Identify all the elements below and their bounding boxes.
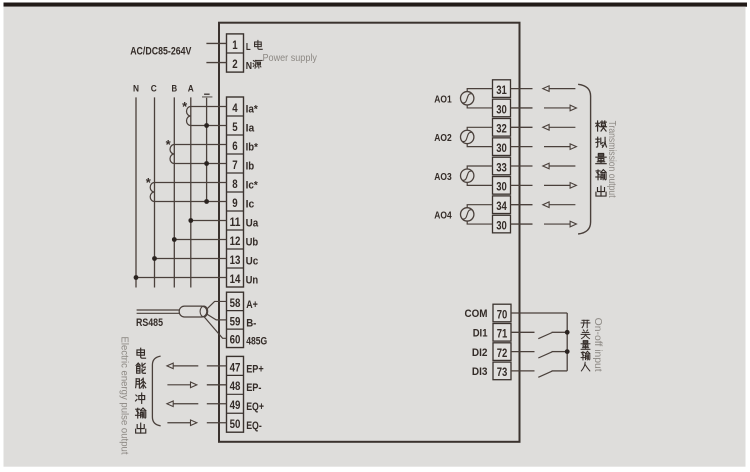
- svg-text:72: 72: [497, 348, 508, 360]
- svg-text:Un: Un: [246, 275, 259, 287]
- svg-text:EQ+: EQ+: [246, 401, 264, 413]
- switch DI3: [538, 371, 552, 377]
- svg-text:Ib: Ib: [246, 161, 255, 173]
- arrow EQ-: [167, 422, 191, 424]
- svg-text:DI2: DI2: [472, 347, 488, 359]
- svg-text:Ic*: Ic*: [246, 180, 259, 192]
- svg-text:58: 58: [230, 297, 241, 310]
- terminal 30 (AO row 2): [493, 99, 511, 117]
- svg-text:13: 13: [230, 254, 241, 267]
- wire switch DI1 to rail: [552, 331, 568, 333]
- svg-text:9: 9: [232, 197, 238, 210]
- junction node DI1 rail: [565, 330, 570, 335]
- junction node Uc: [152, 256, 157, 261]
- wire AO1+: [467, 89, 492, 92]
- wire phase B vertical: [173, 97, 175, 287]
- svg-text:60: 60: [230, 334, 241, 347]
- svg-text:32: 32: [496, 124, 507, 136]
- wire stub DI2: [511, 351, 535, 353]
- svg-text:A+: A+: [246, 299, 258, 311]
- svg-text:485G: 485G: [246, 336, 267, 348]
- terminal 30 (AO row 8): [493, 215, 511, 233]
- svg-text:Electric energy pulse output: Electric energy pulse output: [118, 337, 129, 455]
- svg-text:71: 71: [497, 329, 508, 341]
- svg-text:C: C: [151, 83, 157, 93]
- arrow EP+: [173, 365, 199, 367]
- wire phase N vertical: [135, 97, 137, 287]
- svg-text:73: 73: [497, 367, 508, 379]
- wire stub DI1: [511, 331, 535, 333]
- junction node Ib: [204, 161, 209, 166]
- device outline rectangle: [219, 23, 520, 442]
- svg-text:70: 70: [497, 309, 508, 321]
- terminal block measure 4-14: [227, 97, 244, 287]
- top black bar: [4, 3, 748, 7]
- RS485 cable sheath: [179, 306, 207, 317]
- arrow AO row 1: [549, 88, 576, 90]
- terminal 71: [493, 324, 511, 342]
- current transformer CT-A: [182, 99, 191, 125]
- wire stub out of terminal 30 row 4: [511, 146, 533, 148]
- wire stub terminal EQ-: [207, 422, 227, 424]
- svg-text:30: 30: [496, 104, 507, 116]
- wire to terminal Ic: [155, 201, 227, 203]
- wire to terminal Ia*: [191, 106, 227, 108]
- svg-text:AC/DC85-264V: AC/DC85-264V: [130, 45, 192, 57]
- terminal 31 (AO row 1): [493, 80, 511, 98]
- wire to terminal Un: [136, 277, 227, 279]
- RS485 cable pair: [137, 309, 181, 311]
- svg-text:COM: COM: [465, 308, 488, 320]
- label dian neng mai chong shu chu: [136, 348, 146, 433]
- arrow EP-: [167, 384, 191, 386]
- svg-text:Ia: Ia: [246, 123, 255, 135]
- svg-text:12: 12: [230, 235, 241, 248]
- svg-text:8: 8: [232, 178, 238, 191]
- terminal 72: [493, 343, 511, 361]
- wire to terminal Ib: [174, 163, 226, 165]
- wire AO2+: [467, 127, 492, 130]
- wire stub out of terminal 31 row 1: [511, 88, 533, 90]
- wire common rail vertical: [566, 313, 568, 371]
- svg-text:On-off input: On-off input: [592, 318, 603, 372]
- terminal 32 (AO row 3): [493, 119, 511, 137]
- arrow EQ+: [173, 403, 199, 405]
- junction node Ua: [188, 218, 193, 223]
- wire stub DI3: [511, 370, 535, 372]
- svg-text:49: 49: [230, 399, 241, 412]
- brace transmission output group: [578, 84, 591, 234]
- wire stub out of terminal 32 row 3: [511, 126, 533, 128]
- svg-text:4: 4: [232, 102, 238, 115]
- svg-text:N: N: [246, 60, 252, 72]
- wire to terminal Ub: [174, 239, 226, 241]
- terminal 34 (AO row 7): [493, 196, 511, 214]
- analog output source AO3: [461, 169, 474, 182]
- arrow AO row 8: [544, 223, 571, 225]
- wire AO3+: [467, 166, 492, 169]
- wire to terminal Ib*: [174, 144, 226, 146]
- switch DI1: [538, 333, 552, 339]
- arrow AO row 5: [549, 165, 576, 167]
- wire switch DI3 to rail: [552, 370, 568, 372]
- svg-text:14: 14: [230, 273, 241, 286]
- wire AO1-: [467, 105, 492, 108]
- terminal 33 (AO row 5): [493, 157, 511, 175]
- svg-text:Ib*: Ib*: [246, 142, 259, 154]
- terminal 30 (AO row 6): [493, 177, 511, 195]
- wire phase C vertical: [154, 97, 156, 287]
- wire switch DI2 to rail: [552, 351, 568, 353]
- svg-text:30: 30: [496, 143, 507, 155]
- wire L to terminal 1: [206, 42, 226, 44]
- junction node Un: [134, 275, 139, 280]
- svg-text:Ua: Ua: [246, 218, 259, 230]
- arrow AO row 3: [549, 126, 576, 128]
- svg-text:5: 5: [232, 121, 238, 134]
- switch DI2: [538, 352, 552, 358]
- svg-text:EP+: EP+: [246, 363, 264, 375]
- arrow AO row 4: [544, 146, 571, 148]
- svg-text:A: A: [188, 83, 194, 93]
- current transformer CT-B: [166, 137, 175, 163]
- svg-text:Power supply: Power supply: [263, 53, 318, 64]
- wire to terminal Ua: [191, 220, 227, 222]
- junction node Ia: [204, 123, 209, 128]
- wire to terminal B-: [207, 314, 226, 319]
- svg-text:50: 50: [230, 418, 241, 431]
- svg-text:RS485: RS485: [136, 317, 163, 329]
- wire AO4+: [467, 205, 492, 208]
- wire AO2-: [467, 144, 492, 147]
- svg-text:DI1: DI1: [473, 328, 488, 340]
- label kai guan liang shu ru: [581, 320, 590, 371]
- terminal 73: [493, 362, 511, 380]
- svg-text:33: 33: [496, 162, 507, 174]
- wire COM to common rail: [511, 312, 567, 314]
- svg-text:11: 11: [230, 216, 241, 229]
- svg-text:EQ-: EQ-: [246, 420, 262, 432]
- svg-text:47: 47: [230, 361, 241, 374]
- svg-text:N: N: [133, 83, 139, 93]
- arrow AO row 2: [544, 107, 571, 109]
- wire N to terminal 2: [206, 62, 226, 64]
- wire to terminal Ic*: [155, 182, 227, 184]
- wire to terminal A+: [207, 301, 226, 308]
- svg-text:AO2: AO2: [434, 133, 452, 144]
- svg-text:Ia*: Ia*: [246, 104, 259, 116]
- svg-text:EP-: EP-: [246, 382, 261, 394]
- terminal block RS485 58-60: [227, 292, 244, 347]
- svg-text:6: 6: [232, 140, 238, 153]
- junction node Ub: [172, 237, 177, 242]
- wire stub out of terminal 30 row 8: [511, 223, 533, 225]
- svg-text:34: 34: [496, 201, 507, 213]
- svg-text:Uc: Uc: [246, 256, 259, 268]
- svg-text:48: 48: [230, 380, 241, 393]
- terminal 70: [493, 304, 511, 322]
- svg-text:L: L: [246, 41, 251, 53]
- svg-text:30: 30: [496, 182, 507, 194]
- junction node Ic: [204, 199, 209, 204]
- wire stub terminal EP+: [207, 365, 227, 367]
- svg-text:DI3: DI3: [472, 366, 488, 378]
- wire stub out of terminal 33 row 5: [511, 165, 533, 167]
- svg-text:AO4: AO4: [434, 210, 452, 221]
- svg-text:Ic: Ic: [246, 199, 255, 211]
- wire stub out of terminal 34 row 7: [511, 204, 533, 206]
- wire stub terminal EQ+: [207, 403, 227, 405]
- svg-text:Ub: Ub: [246, 237, 259, 249]
- wire phase A vertical: [190, 97, 192, 287]
- wire shield to terminal 485G: [204, 317, 226, 338]
- current transformer CT-C: [146, 175, 155, 201]
- wire AO4-: [467, 221, 492, 224]
- arrow AO row 7: [549, 204, 576, 206]
- wire stub out of terminal 30 row 6: [511, 184, 533, 186]
- svg-text:7: 7: [232, 159, 237, 172]
- svg-text:59: 59: [230, 315, 241, 328]
- ground symbol: [202, 94, 212, 97]
- label mo ni liang shu chu: [596, 121, 607, 196]
- terminal block power 1-2: [227, 34, 244, 72]
- analog output source AO1: [461, 92, 474, 105]
- svg-text:B-: B-: [246, 317, 256, 329]
- analog output source AO4: [461, 208, 474, 221]
- wire to terminal Ia: [191, 125, 227, 127]
- svg-text:AO1: AO1: [434, 94, 452, 105]
- terminal block pulse 47-50: [227, 356, 244, 432]
- wire to terminal Uc: [155, 258, 227, 260]
- svg-text:31: 31: [496, 85, 507, 97]
- terminal 30 (AO row 4): [493, 138, 511, 156]
- junction node DI2 rail: [565, 349, 570, 354]
- svg-text:B: B: [172, 83, 178, 93]
- wire AO3-: [467, 182, 492, 185]
- wire CT common vertical: [206, 98, 208, 202]
- svg-text:AO3: AO3: [434, 172, 452, 183]
- brace pulse output group: [152, 356, 160, 426]
- svg-text:1: 1: [232, 39, 238, 52]
- wire stub out of terminal 30 row 2: [511, 107, 533, 109]
- wire stub terminal EP-: [207, 384, 227, 386]
- svg-text:Transmission output: Transmission output: [606, 121, 617, 198]
- svg-text:2: 2: [232, 58, 238, 71]
- arrow AO row 6: [544, 184, 571, 186]
- svg-text:30: 30: [496, 220, 507, 232]
- analog output source AO2: [461, 130, 474, 143]
